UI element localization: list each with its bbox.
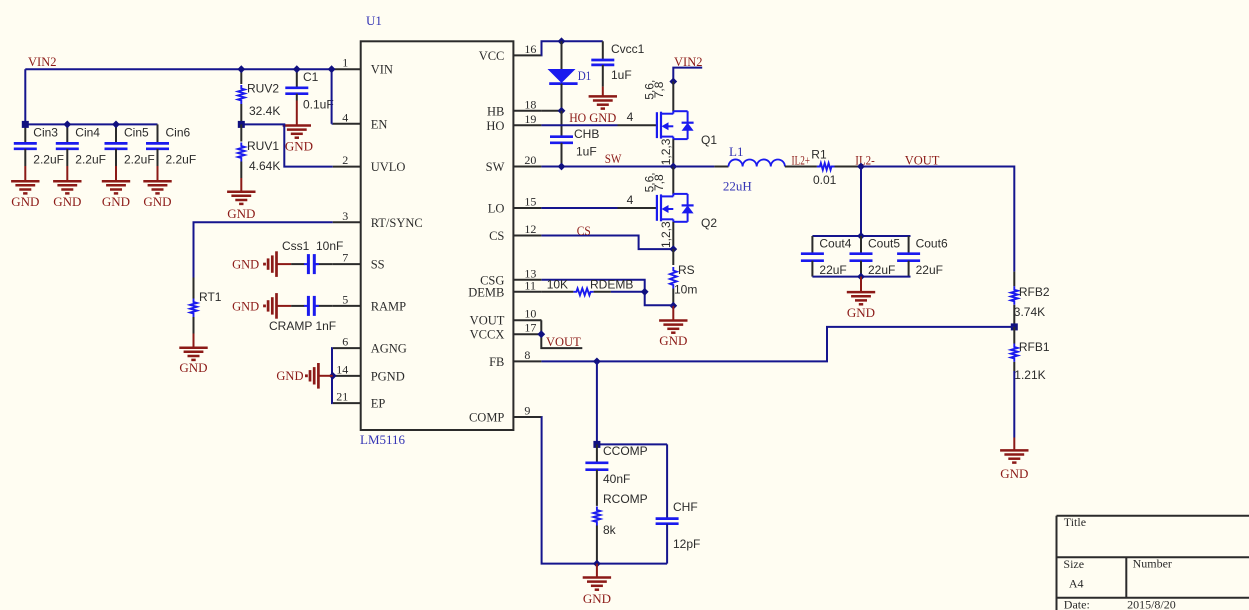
svg-text:4: 4 [627,110,634,124]
capacitor Css1 10nF [282,239,343,274]
svg-text:COMP: COMP [469,411,504,425]
pin 21 EP of U1 [333,390,386,411]
svg-text:40nF: 40nF [603,472,630,486]
capacitor Cvcc1 1uF [591,41,644,86]
capacitor CHF 12pF [656,444,701,563]
wire RUV2/RUV1 midpoint to UVLO pin 2 [241,124,332,166]
pin 18 HB of U1 [487,97,541,118]
svg-text:Cin3: Cin3 [33,126,58,140]
resistor RFB2 3.74K [1011,272,1050,327]
svg-text:9: 9 [524,404,530,418]
pin numbers 5,6,7,8 (Q1 drain) [643,80,667,100]
resistor RS 10m [670,249,697,306]
pin 8 FB of U1 [489,348,541,369]
svg-text:2.2uF: 2.2uF [124,153,155,167]
ground symbol for output caps [847,277,875,320]
svg-text:SS: SS [371,258,385,272]
ground symbol for RFB1 [1000,450,1028,481]
title block text Date [1064,598,1090,610]
pin 10 VOUT of U1 [470,307,542,328]
wire feedback node to FB pin 8 [541,327,1014,362]
junction: RDEMB to CSG [641,288,649,296]
svg-text:1,2,3: 1,2,3 [659,138,673,165]
svg-text:Cin4: Cin4 [75,126,100,140]
svg-text:GND: GND [11,194,39,209]
svg-text:CHF: CHF [673,500,698,514]
pin 5 RAMP of U1 [333,292,406,313]
svg-text:2015/8/20: 2015/8/20 [1127,598,1176,610]
resistor R1 0.01 [811,148,861,188]
pin 14 PGND of U1 [333,362,405,383]
svg-text:0.1uF: 0.1uF [303,98,334,112]
capacitor Cin6 2.2uF [146,124,196,166]
svg-text:22uF: 22uF [819,263,846,277]
capacitor Cin4 2.2uF [56,124,106,166]
capacitor CRAMP 1nF [269,296,336,333]
capacitor Cout6 22uF [897,236,948,277]
svg-text:Date:: Date: [1064,598,1090,610]
junction: Q1 source / Q2 drain on SW [669,163,677,171]
junction: PGND tie [329,372,337,380]
svg-text:Q1: Q1 [701,133,717,147]
junction: feedback node [1011,323,1018,330]
capacitor Cin5 2.2uF [105,124,155,166]
junction: CS on Q2 source [669,245,677,253]
pin 13 CSG of U1 [480,266,541,287]
svg-text:RCOMP: RCOMP [603,492,648,506]
junction: CHB bottom on SW [558,163,566,171]
svg-text:3: 3 [342,209,348,223]
ground symbol at SS (left of Css1) [232,251,291,277]
svg-text:6: 6 [342,335,348,349]
junction: C1 top on VIN2 bus [293,65,301,73]
svg-text:7,8: 7,8 [652,174,666,191]
ground symbol for Cin4 [53,166,81,209]
junction: IL2- node [857,163,865,171]
svg-text:Number: Number [1133,557,1172,571]
svg-text:AGNG: AGNG [371,342,407,356]
wire SW to L1 [673,166,714,168]
wire CSG pin 13 down to RS bottom [542,280,674,305]
svg-text:HB: HB [487,104,504,118]
wire VOUT pin 10 to VCCX pin 17 with VOUT stub [541,320,582,348]
svg-text:A4: A4 [1069,577,1084,591]
wire VCC pin 16 to D1/Cvcc1 rail [541,41,602,55]
net label HO [569,111,586,125]
net label VOUT (output rail) [905,154,940,168]
wire SW pin 20 to Q1/Q2 node and L1 [541,166,673,168]
ground symbol for Cin6 [143,166,171,209]
svg-text:LO: LO [488,202,505,216]
wire HB pin 18 to CHB top [541,110,561,112]
wire COMP pin 9 to compensation bottom rail [541,417,667,564]
svg-text:8k: 8k [603,523,617,537]
value label LM5116 [360,432,406,447]
svg-text:RUV1: RUV1 [247,139,279,153]
pin 19 HO of U1 [486,112,541,133]
ground symbol for RT1 [179,348,207,375]
svg-text:GND: GND [179,360,207,375]
net label CS [577,224,591,238]
svg-text:RFB1: RFB1 [1019,340,1050,354]
svg-text:EN: EN [371,117,388,131]
svg-text:2: 2 [342,153,348,167]
svg-text:15: 15 [524,195,536,209]
svg-text:CS: CS [489,229,504,243]
wire AGNG/PGND/EP ground tie [331,348,334,403]
svg-text:17: 17 [524,321,536,335]
ground symbol for Cin5 [102,166,130,209]
svg-text:RDEMB: RDEMB [590,278,633,292]
svg-text:1.21K: 1.21K [1014,368,1045,382]
svg-text:Cin6: Cin6 [166,126,191,140]
title block text Title [1064,515,1086,529]
svg-text:20: 20 [524,153,536,167]
ground symbol for Cvcc1 [589,87,617,125]
svg-text:12pF: 12pF [673,537,700,551]
svg-text:Size: Size [1063,557,1084,571]
junction: caps top center [857,232,865,240]
svg-text:10m: 10m [674,283,697,297]
svg-text:RAMP: RAMP [371,299,406,313]
svg-text:Css1 10nF: Css1 10nF [282,239,343,253]
junction: Cin4 on rail [63,121,71,129]
pin numbers 5,6,7,8 (Q2 drain) [643,172,667,192]
pin 7 SS of U1 [333,251,385,272]
svg-text:VCC: VCC [479,49,505,63]
junction: VIN2 stub to drain pin [669,78,677,86]
svg-text:GND: GND [227,206,255,221]
title block text Size [1063,557,1084,571]
svg-text:HO: HO [486,119,504,133]
svg-text:3.74K: 3.74K [1014,305,1045,319]
svg-text:L1: L1 [729,144,743,159]
svg-text:0.01: 0.01 [813,173,837,187]
svg-text:32.4K: 32.4K [249,104,280,118]
ground symbol for RUV1 [227,178,255,221]
svg-text:19: 19 [524,112,536,126]
title block text A4 [1069,577,1084,591]
pin number 4 (Q1 gate) [627,110,634,124]
svg-text:GND: GND [583,591,611,606]
svg-text:2.2uF: 2.2uF [75,153,106,167]
svg-text:5: 5 [342,292,348,306]
junction: caps bottom center [857,273,865,281]
svg-text:EP: EP [371,397,386,411]
svg-text:GND: GND [232,299,259,313]
pin numbers 1,2,3 (Q2 source) [659,221,673,248]
svg-text:4: 4 [627,193,634,207]
pin number 4 (Q2 gate) [627,193,634,207]
svg-text:Cvcc1: Cvcc1 [611,42,645,56]
ground symbol for RS [659,306,687,348]
wire HO pin 19 to Q1 gate [541,124,657,126]
junction: RUV2 top on VIN2 bus [237,65,245,73]
pin 4 EN of U1 [333,110,388,131]
svg-text:GND: GND [232,258,259,272]
ground symbol for Cin3 [11,166,39,209]
ground symbol at PGND [276,363,332,389]
svg-text:12: 12 [524,222,536,236]
svg-text:DEMB: DEMB [468,285,504,299]
svg-text:2.2uF: 2.2uF [166,153,197,167]
svg-text:GND: GND [276,369,303,383]
svg-text:VCCX: VCCX [470,328,505,342]
svg-text:22uH: 22uH [723,179,752,194]
pin 2 UVLO of U1 [333,153,406,174]
wire FB node down to CCOMP [596,361,598,444]
wire output cap top rail [812,235,910,237]
pin 16 VCC of U1 [479,42,542,63]
svg-text:CHB: CHB [574,127,599,141]
svg-text:GND: GND [659,333,687,348]
wire CS pin 12 to Q2 source [541,236,673,250]
svg-text:RT/SYNC: RT/SYNC [371,216,423,230]
svg-text:RFB2: RFB2 [1019,285,1050,299]
junction: FB to compensation [593,358,601,366]
svg-text:18: 18 [524,97,536,111]
svg-text:1: 1 [342,56,348,70]
svg-text:21: 21 [336,390,348,404]
svg-text:FB: FB [489,355,504,369]
inductor L1 22uH [714,144,817,194]
capacitor Cin3 2.2uF [14,124,64,166]
pin 9 COMP of U1 [469,404,541,425]
junction: CCOMP/CHF top [593,441,600,448]
svg-text:22uF: 22uF [916,263,943,277]
wire IL2- down to output caps [860,167,862,237]
svg-text:GND: GND [143,194,171,209]
transistor Q1 (high-side NMOS) [657,82,717,167]
svg-text:VOUT: VOUT [470,314,505,328]
wire input capacitor rail [25,123,157,125]
wire output rail to feedback divider [861,167,1014,272]
wire LO pin 15 to Q2 gate [541,207,657,209]
wire RT/SYNC pin 3 to RT1 [194,222,333,277]
svg-text:VOUT: VOUT [546,335,581,349]
svg-text:RUV2: RUV2 [247,82,279,96]
svg-text:14: 14 [336,362,348,376]
capacitor C1 0.1uF [285,69,333,111]
wire CHF top branch [597,443,667,445]
junction: VIN2 drop joins cap rail [22,121,29,128]
svg-text:PGND: PGND [371,369,405,383]
svg-text:10: 10 [524,307,536,321]
svg-text:VIN: VIN [371,63,393,77]
transistor Q2 (low-side NMOS) [657,167,717,250]
net label VIN2 (Q1 drain) [674,55,702,69]
svg-text:GND: GND [847,305,875,320]
capacitor CCOMP 40nF [585,444,647,486]
wire output cap bottom rail [812,276,910,278]
pin 12 CS of U1 [489,222,541,243]
resistor RUV2 32.4K [238,69,280,124]
ground symbol at RAMP (left of CRAMP) [232,293,291,319]
wire EN drop from VIN2 bus to pin 4 [332,69,333,124]
junction: EN drop on VIN2 bus [328,65,336,73]
net label SW [605,152,622,166]
ground symbol for compensation network [583,564,611,606]
svg-text:Q2: Q2 [701,216,717,230]
title block text date value [1127,598,1176,610]
svg-text:Cout4: Cout4 [819,237,851,251]
svg-text:CRAMP 1nF: CRAMP 1nF [269,319,336,333]
svg-text:1uF: 1uF [611,68,632,82]
pin numbers 1,2,3 (Q1 source) [659,138,673,165]
svg-text:IL2+: IL2+ [792,154,811,168]
pin 17 VCCX of U1 [470,321,542,342]
ground symbol for C1 [283,101,313,154]
pin 3 RT/SYNC of U1 [333,209,423,230]
svg-text:SW: SW [605,152,622,166]
svg-text:VOUT: VOUT [905,154,940,168]
resistor RFB1 1.21K [1011,327,1050,451]
resistor RDEMB 10K [541,278,644,296]
junction: RUV divider midpoint [238,121,245,128]
op-amp U1 LM5116 controller body [361,41,514,430]
capacitor CHB 1uF [550,111,599,167]
svg-text:Title: Title [1064,515,1086,529]
svg-text:2.2uF: 2.2uF [33,153,64,167]
net label VIN2 (top-left) [28,55,56,69]
svg-text:22uF: 22uF [868,263,895,277]
svg-text:U1: U1 [366,13,382,28]
pin 20 SW of U1 [486,153,542,174]
svg-text:1,2,3: 1,2,3 [659,221,673,248]
pin 6 AGNG of U1 [333,335,407,356]
net label IL2- [855,154,875,168]
pin 1 VIN of U1 [333,56,393,77]
junction: comp ground node [593,560,601,568]
svg-text:R1: R1 [811,148,827,162]
svg-text:VIN2: VIN2 [28,55,56,69]
svg-text:8: 8 [524,348,530,362]
svg-text:4.64K: 4.64K [249,159,280,173]
svg-text:Cout5: Cout5 [868,237,900,251]
svg-text:16: 16 [524,42,536,56]
junction: RS bottom / DEMB return [669,302,677,310]
capacitor Cout4 22uF [801,236,852,277]
svg-text:4: 4 [342,110,348,124]
wire VIN2 vertical drop to input cap rail [24,69,26,124]
wire VIN2 stub to Q1 drain [673,68,702,82]
svg-text:7,8: 7,8 [652,81,666,98]
svg-text:CCOMP: CCOMP [603,444,648,458]
svg-text:Cin5: Cin5 [124,126,149,140]
svg-text:GND: GND [102,194,130,209]
title block text Number [1133,557,1172,571]
capacitor Cout5 22uF [850,236,901,277]
svg-text:HO: HO [569,111,586,125]
title block frame [1057,516,1249,610]
net label IL2+ [792,154,811,168]
svg-text:Cout6: Cout6 [916,237,948,251]
pin 15 LO of U1 [488,195,542,216]
svg-text:CS: CS [577,224,591,238]
svg-text:GND: GND [1000,466,1028,481]
svg-text:1uF: 1uF [576,145,597,159]
junction: Cin5 on rail [112,121,120,129]
svg-text:RS: RS [678,263,695,277]
svg-text:GND: GND [285,139,313,154]
svg-text:C1: C1 [303,70,319,84]
wire VIN2 horizontal bus to pin 1 [25,68,332,70]
svg-text:11: 11 [524,278,536,292]
svg-text:10K: 10K [547,278,568,292]
svg-text:D1: D1 [578,68,592,83]
svg-text:GND: GND [589,111,616,125]
junction: VCCX tie [537,330,545,338]
designator U1 [366,13,382,28]
svg-text:SW: SW [486,160,505,174]
svg-text:UVLO: UVLO [371,160,406,174]
resistor RUV1 4.64K [238,124,280,178]
svg-text:RT1: RT1 [199,290,222,304]
net label VOUT (VCCX stub) [546,335,581,349]
resistor RT1 [190,278,222,348]
junction: HB / D1 node [558,107,566,115]
junction: D1 cathode on VCC rail [558,37,566,45]
svg-text:GND: GND [53,194,81,209]
svg-text:LM5116: LM5116 [360,432,406,447]
pin 11 DEMB of U1 [468,278,541,299]
resistor RCOMP 8k [594,486,648,564]
diode D1 [548,41,592,111]
